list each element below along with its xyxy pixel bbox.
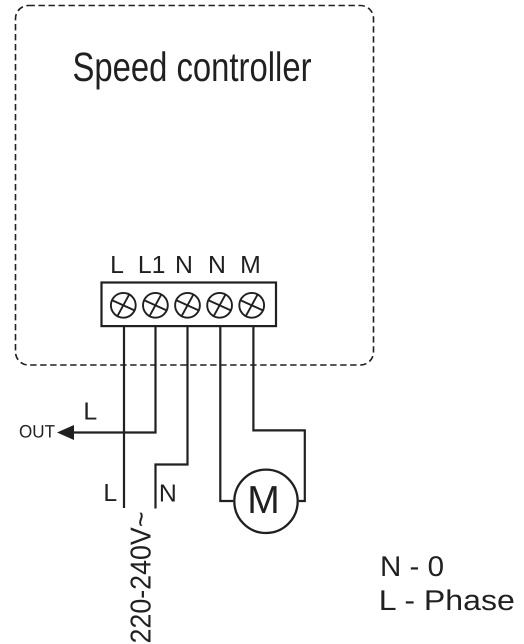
svg-text:220-240V~: 220-240V~ (126, 512, 158, 644)
terminal block (102, 283, 277, 327)
svg-text:L: L (110, 252, 124, 279)
terminal T1 (L) screw (111, 293, 136, 318)
motor M1 circle (234, 470, 297, 533)
terminal T5 (M) screw (239, 293, 264, 318)
svg-text:N: N (208, 252, 226, 279)
svg-text:L1: L1 (138, 252, 166, 279)
wire L (terminal 1 down to supply) (123, 326, 125, 508)
terminal T2 (L1) screw (143, 293, 168, 318)
terminal T4 (N) screw (207, 293, 232, 318)
svg-text:M: M (240, 252, 261, 279)
OUT arrow head (57, 425, 74, 440)
wire N (terminal 3 down, jog left, down to supply) (156, 326, 188, 509)
svg-text:N: N (159, 481, 177, 508)
svg-text:L: L (103, 480, 117, 507)
svg-text:OUT: OUT (19, 421, 55, 441)
speed controller box (dashed outline) (16, 6, 374, 366)
svg-text:Speed controller: Speed controller (73, 44, 312, 90)
svg-text:N - 0: N - 0 (380, 551, 444, 583)
wire L1 to OUT (terminal 2 down, then left to arrow) (72, 326, 156, 433)
svg-text:L - Phase: L - Phase (379, 585, 515, 617)
svg-text:M: M (247, 479, 280, 522)
svg-text:N: N (175, 252, 193, 279)
svg-text:L: L (83, 399, 97, 426)
wire N to motor (terminal 4 down to motor left) (220, 326, 233, 501)
wire M to motor (terminal 5 down, right, down, to motor right) (253, 326, 304, 501)
terminal T3 (N) screw (175, 293, 200, 318)
